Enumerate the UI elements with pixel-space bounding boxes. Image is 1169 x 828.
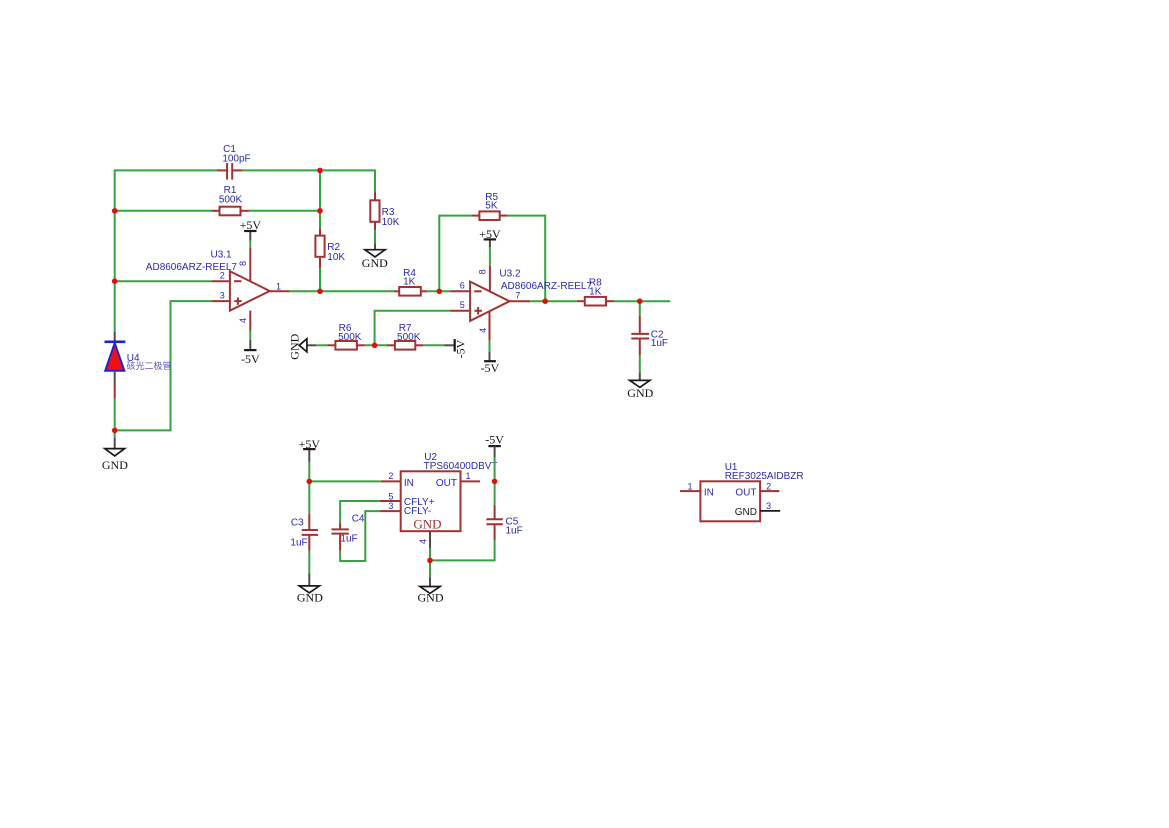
capacitor C2 [631, 316, 668, 356]
wire: non-inverting input from photodiode anode [115, 301, 212, 430]
resistor R7 [387, 323, 423, 350]
svg-text:GND: GND [418, 591, 444, 605]
svg-text:+5V: +5V [240, 218, 262, 232]
resistor R3 [370, 192, 399, 230]
wire: CFLY+ to C4 top [340, 501, 380, 524]
svg-text:AD8606ARZ-REEL7: AD8606ARZ-REEL7 [146, 262, 238, 273]
op-amp U3.2 pin 6 [450, 281, 470, 292]
+5V supply at U3.2 [479, 227, 501, 266]
junction dots [112, 168, 643, 564]
svg-text:8: 8 [478, 269, 488, 274]
wire: R1 feedback net horizontal [115, 210, 320, 212]
svg-text:1K: 1K [403, 277, 416, 288]
wire: R5 feedback loop [439, 216, 471, 292]
svg-text:7: 7 [515, 291, 520, 301]
svg-text:-5V: -5V [454, 339, 468, 358]
op-amp U3.1 pin 3 [211, 291, 230, 301]
wire: inverting input stub net [115, 280, 212, 282]
svg-text:100pF: 100pF [222, 153, 250, 164]
svg-text:+5V: +5V [479, 227, 501, 241]
U1 pin 2 (OUT) [760, 481, 779, 491]
svg-text:REF3025AIDBZR: REF3025AIDBZR [725, 471, 804, 482]
svg-text:1K: 1K [589, 286, 602, 297]
U2 pin 5 (CFLY+) [380, 492, 401, 502]
node: R6/R7 divider tap [372, 343, 378, 349]
U1 pin 1 (IN) [680, 481, 700, 491]
op-amp U3.1 [146, 250, 270, 311]
node: inverting input branch [112, 278, 118, 284]
svg-text:3: 3 [766, 501, 771, 511]
wire: C5 branch down [494, 481, 496, 505]
charge pump U2 [401, 452, 498, 532]
svg-text:GND: GND [627, 386, 653, 400]
wire: C3 branch down [308, 481, 310, 513]
voltage reference U1 [700, 462, 803, 522]
op-amp U3.2 [470, 269, 592, 321]
svg-text:-5V: -5V [485, 432, 504, 446]
capacitor C1 [217, 144, 251, 180]
svg-text:-5V: -5V [481, 361, 500, 375]
capacitor C5 [486, 505, 522, 540]
ground below C2 [627, 372, 653, 400]
ground below C3 [297, 574, 323, 605]
op-amp U3.1 output pin 1 [270, 281, 290, 291]
wire: U2 pin4 to ground junction [429, 548, 431, 560]
op-amp U3.2 output pin 7 [510, 291, 531, 302]
svg-text:4: 4 [418, 539, 428, 544]
svg-text:500K: 500K [338, 332, 362, 343]
ground below U2 [418, 577, 444, 604]
U2 pin 2 (IN) [381, 471, 401, 481]
svg-text:GND: GND [413, 517, 441, 532]
svg-text:IN: IN [704, 487, 714, 498]
svg-text:1uF: 1uF [506, 526, 523, 537]
U1 pin 3 (GND) [760, 501, 780, 511]
svg-text:TPS60400DBVT: TPS60400DBVT [424, 461, 498, 472]
node: R8 / C2 [637, 298, 643, 304]
node: photodiode anode [112, 428, 118, 434]
resistor R2 [315, 228, 345, 268]
wire: C3 to ground [308, 551, 310, 574]
svg-text:GND: GND [102, 458, 128, 472]
op-amp U3.2 pin 4 (V-) [478, 311, 490, 340]
U2 pin 1 (OUT) [461, 471, 481, 481]
svg-text:1uF: 1uF [340, 533, 357, 544]
-5V supply at R7 (rotated) [444, 339, 467, 358]
svg-text:4: 4 [238, 318, 248, 323]
node: -5V / C5 / U2 OUT [492, 479, 498, 485]
-5V supply at C5 [485, 432, 504, 457]
node: U3.1 output / R2 bottom [317, 289, 323, 295]
svg-text:2: 2 [388, 471, 393, 481]
-5V supply at U3.1 [241, 331, 260, 366]
svg-text:C4: C4 [352, 514, 365, 525]
svg-text:硋光二极管: 硋光二极管 [127, 360, 172, 371]
ground at R6 (rotated) [287, 333, 316, 359]
svg-text:OUT: OUT [735, 487, 756, 498]
node: R1/left column [112, 208, 118, 214]
-5V supply at U3.2 [481, 341, 500, 375]
svg-text:IN: IN [404, 478, 414, 489]
op-amp U3.1 pin 8 (V+) [238, 248, 251, 281]
wire: C2 branch [639, 301, 641, 316]
node: U2 GND / C5 return [427, 558, 433, 564]
+5V supply at C3 [299, 437, 321, 462]
svg-text:5: 5 [388, 492, 393, 502]
svg-text:10K: 10K [382, 217, 400, 228]
svg-text:5K: 5K [485, 200, 498, 211]
svg-text:1uF: 1uF [290, 538, 307, 549]
wire: U3.2 output net to R8 [530, 300, 577, 302]
wire: +5V rail into U2 IN [309, 462, 380, 482]
op-amp U3.1 pin 2 [211, 270, 230, 281]
svg-text:GND: GND [735, 507, 757, 518]
photodiode U4 [105, 332, 172, 399]
node: R4 / R5 / pin6 [437, 289, 443, 295]
svg-text:GND: GND [362, 256, 388, 270]
svg-text:C3: C3 [291, 518, 304, 529]
wire: -5V rail to U2 OUT [494, 458, 496, 482]
resistor R1 [211, 185, 249, 215]
svg-text:U3.2: U3.2 [499, 269, 521, 280]
resistor R8 [577, 277, 614, 305]
resistor R4 [394, 268, 427, 296]
wire: R5 to U3.2 output node [508, 216, 546, 302]
svg-text:8: 8 [238, 261, 248, 266]
svg-text:CFLY-: CFLY- [404, 506, 431, 517]
ground below R3 [362, 243, 388, 270]
wire: left column from top net down to photodiode [114, 211, 116, 332]
wire: bias divider net (R6/R7) [316, 344, 444, 346]
resistor R6 [327, 323, 365, 350]
svg-text:+5V: +5V [299, 437, 321, 451]
wire: ground junction to C5 bottom [430, 540, 495, 560]
wire: R3 bottom to ground [374, 230, 376, 243]
wire: C4 bottom to CFLY- [340, 511, 380, 561]
op-amp U3.2 pin 5 [450, 300, 470, 311]
svg-text:6: 6 [460, 281, 465, 291]
resistor R5 [471, 192, 507, 220]
wire: divider tap to U3.2 pin 5 [375, 311, 451, 346]
svg-text:1: 1 [465, 471, 470, 481]
svg-text:U3.1: U3.1 [211, 250, 233, 261]
node: C1 net / R2 top [317, 168, 323, 174]
wire: below junction [429, 560, 431, 577]
svg-text:1uF: 1uF [651, 338, 668, 349]
capacitor C3 [290, 514, 318, 551]
wire: R8 to output terminal [614, 300, 670, 302]
svg-text:3: 3 [388, 501, 393, 511]
node: R1 net / R2 [317, 208, 323, 214]
svg-text:1: 1 [276, 281, 281, 291]
wire: R4 to U3.2 inverting node [427, 290, 450, 292]
svg-text:2: 2 [766, 481, 771, 491]
wire: top feedback net horizontal (C1 net) [115, 170, 375, 210]
capacitor C4 [332, 514, 365, 551]
U2 pin 3 (CFLY-) [380, 501, 401, 511]
svg-text:OUT: OUT [436, 478, 457, 489]
op-amp U3.1 pin 4 (V-) [238, 311, 251, 331]
svg-text:-5V: -5V [241, 352, 260, 366]
svg-text:1: 1 [687, 481, 692, 491]
U2 pin 4 (GND) [418, 531, 430, 548]
wire: vertical branch x=320 (C1/R1 to R2) [319, 170, 321, 228]
svg-text:GND: GND [297, 591, 323, 605]
wire: photodiode anode to ground junction [114, 399, 116, 438]
svg-text:5: 5 [460, 300, 465, 310]
wire: R2 bottom to output net [319, 268, 321, 291]
svg-text:10K: 10K [327, 252, 345, 263]
node: +5V / C3 / U2 IN [307, 479, 313, 485]
svg-text:500K: 500K [397, 332, 421, 343]
node: U3.2 output / R5 [542, 298, 548, 304]
ground at photodiode [102, 438, 128, 472]
svg-text:500K: 500K [219, 195, 243, 206]
svg-text:4: 4 [478, 328, 488, 333]
svg-text:GND: GND [287, 333, 301, 359]
svg-text:3: 3 [220, 291, 225, 301]
op-amp U3.2 pin 8 (V+) [478, 266, 490, 291]
+5V supply at U3.1 [240, 218, 262, 248]
wire: U3.1 output net to R4 [290, 290, 394, 292]
wire: C2 to ground [639, 355, 641, 372]
